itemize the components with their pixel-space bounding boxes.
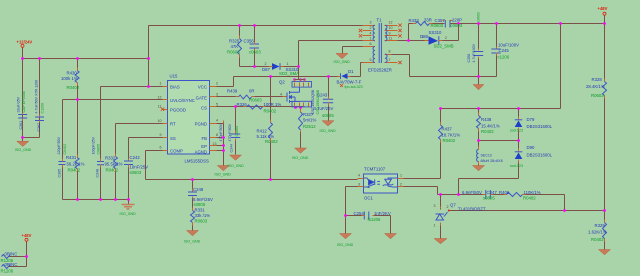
svg-text:12: 12 bbox=[389, 21, 393, 25]
svg-text:RT: RT bbox=[170, 122, 176, 127]
svg-text:1nF/2KV: 1nF/2KV bbox=[374, 211, 391, 216]
svg-text:SS: SS bbox=[170, 136, 176, 141]
svg-text:1: 1 bbox=[434, 224, 436, 228]
svg-text:fpo-sot-323: fpo-sot-323 bbox=[345, 85, 363, 89]
svg-text:10: 10 bbox=[389, 26, 393, 30]
svg-text:s0603: s0603 bbox=[130, 170, 142, 175]
svg-text:Q7: Q7 bbox=[450, 203, 456, 208]
svg-text:R1206: R1206 bbox=[1, 269, 14, 274]
svg-text:4: 4 bbox=[280, 93, 282, 97]
svg-text:R439: R439 bbox=[227, 89, 238, 94]
svg-text:sod-523: sod-523 bbox=[510, 164, 523, 168]
svg-text:R0603: R0603 bbox=[249, 98, 262, 103]
svg-text:LM5155DSS: LM5155DSS bbox=[185, 159, 209, 164]
svg-text:9: 9 bbox=[160, 133, 162, 137]
svg-text:2: 2 bbox=[445, 36, 447, 40]
svg-text:PGND: PGND bbox=[195, 121, 207, 126]
svg-text:470pF/50V: 470pF/50V bbox=[219, 123, 223, 141]
svg-text:SD2_SMB: SD2_SMB bbox=[434, 43, 454, 48]
svg-text:33R: 33R bbox=[424, 18, 432, 23]
svg-text:R0402: R0402 bbox=[443, 138, 456, 143]
svg-text:VCC: VCC bbox=[198, 84, 207, 89]
svg-text:0R: 0R bbox=[249, 89, 255, 94]
svg-text:Q2: Q2 bbox=[279, 80, 285, 85]
svg-text:18.7K/1%: 18.7K/1% bbox=[442, 133, 461, 138]
svg-text:ISO_GND: ISO_GND bbox=[215, 173, 232, 177]
svg-text:AGND: AGND bbox=[195, 150, 207, 155]
svg-text:C362: C362 bbox=[37, 123, 41, 132]
svg-text:28.4K/1%: 28.4K/1% bbox=[586, 84, 605, 89]
svg-text:2: 2 bbox=[216, 82, 218, 86]
svg-text:R0603: R0603 bbox=[195, 218, 208, 223]
svg-text:5: 5 bbox=[216, 103, 218, 107]
svg-text:4: 4 bbox=[216, 119, 218, 123]
svg-text:3: 3 bbox=[370, 21, 372, 25]
svg-text:fk1206: fk1206 bbox=[368, 217, 382, 222]
svg-text:D90: D90 bbox=[527, 145, 535, 150]
svg-text:C242: C242 bbox=[130, 155, 141, 160]
svg-text:sod-523: sod-523 bbox=[510, 129, 523, 133]
svg-text:R0402: R0402 bbox=[591, 237, 604, 242]
svg-text:3: 3 bbox=[358, 183, 360, 187]
svg-text:c0603: c0603 bbox=[249, 50, 261, 55]
svg-text:6.9nF/50V: 6.9nF/50V bbox=[462, 190, 482, 195]
svg-text:6: 6 bbox=[370, 42, 372, 46]
svg-text:C361: C361 bbox=[19, 121, 23, 130]
svg-text:C356: C356 bbox=[244, 39, 255, 44]
svg-text:ISO_GND: ISO_GND bbox=[120, 212, 137, 216]
svg-text:R0402: R0402 bbox=[68, 168, 81, 173]
svg-text:C245: C245 bbox=[499, 48, 510, 53]
svg-text:OC1: OC1 bbox=[364, 196, 373, 201]
svg-text:BIAS: BIAS bbox=[170, 84, 180, 89]
svg-text:D87: D87 bbox=[262, 67, 270, 72]
svg-text:2: 2 bbox=[265, 62, 267, 66]
svg-text:ISO_GND: ISO_GND bbox=[334, 60, 351, 64]
svg-text:C344: C344 bbox=[230, 144, 234, 153]
svg-text:9: 9 bbox=[389, 31, 391, 35]
svg-text:R433: R433 bbox=[409, 18, 420, 23]
svg-text:R327: R327 bbox=[303, 112, 314, 117]
svg-text:R0402: R0402 bbox=[264, 109, 277, 114]
svg-text:470pF/50V: 470pF/50V bbox=[228, 123, 232, 141]
svg-text:1: 1 bbox=[400, 174, 402, 178]
svg-text:C1206: C1206 bbox=[41, 103, 45, 114]
svg-text:EP: EP bbox=[201, 144, 207, 149]
svg-text:R0603: R0603 bbox=[591, 93, 604, 98]
svg-text:12: 12 bbox=[158, 95, 162, 99]
svg-text:15.4K/1%: 15.4K/1% bbox=[481, 124, 500, 129]
svg-text:TL431BIDBZT: TL431BIDBZT bbox=[458, 207, 486, 212]
svg-text:2: 2 bbox=[400, 183, 402, 187]
svg-text:C348: C348 bbox=[96, 169, 100, 178]
svg-text:11: 11 bbox=[389, 37, 393, 41]
svg-text:10nF/25V: 10nF/25V bbox=[130, 165, 149, 170]
svg-text:ISO_GND: ISO_GND bbox=[337, 243, 354, 247]
svg-text:0R/NC: 0R/NC bbox=[5, 262, 18, 267]
svg-text:33k /1%: 33k /1% bbox=[195, 213, 211, 218]
svg-text:220P: 220P bbox=[452, 18, 462, 23]
svg-text:D1: D1 bbox=[348, 69, 354, 74]
svg-text:R412: R412 bbox=[257, 129, 268, 134]
svg-text:100k 1%: 100k 1% bbox=[61, 76, 78, 81]
svg-text:1.62K/1%: 1.62K/1% bbox=[588, 230, 607, 235]
svg-text:ISO_GND: ISO_GND bbox=[320, 129, 337, 133]
svg-text:DB2S31600L: DB2S31600L bbox=[527, 124, 553, 129]
svg-text:R328: R328 bbox=[592, 77, 603, 82]
svg-text:UVLO/SYNC: UVLO/SYNC bbox=[170, 98, 195, 103]
svg-text:3: 3 bbox=[434, 204, 436, 208]
svg-text:R0402: R0402 bbox=[523, 195, 536, 200]
svg-text:s0805: s0805 bbox=[322, 113, 334, 118]
svg-text:R0603: R0603 bbox=[227, 50, 240, 55]
svg-text:R2512: R2512 bbox=[303, 124, 316, 129]
svg-text:C358: C358 bbox=[467, 54, 471, 63]
svg-text:R0402: R0402 bbox=[265, 139, 278, 144]
svg-text:68uH 28=6X8: 68uH 28=6X8 bbox=[481, 159, 503, 163]
svg-text:4.7uF/100V: 4.7uF/100V bbox=[472, 43, 476, 62]
svg-text:TCMT1107: TCMT1107 bbox=[364, 167, 386, 172]
svg-text:s0805: s0805 bbox=[483, 196, 495, 201]
svg-text:C0402: C0402 bbox=[63, 144, 67, 155]
svg-text:U15: U15 bbox=[170, 74, 178, 79]
svg-text:C243: C243 bbox=[317, 93, 328, 98]
svg-text:CAP EP035E: CAP EP035E bbox=[22, 90, 26, 112]
svg-text:2: 2 bbox=[370, 26, 372, 30]
svg-text:110K/1%: 110K/1% bbox=[524, 190, 541, 195]
svg-text:10: 10 bbox=[158, 119, 162, 123]
svg-text:SEC12: SEC12 bbox=[481, 154, 492, 158]
svg-text:5: 5 bbox=[370, 58, 372, 62]
svg-text:+48V: +48V bbox=[22, 233, 32, 238]
svg-text:+48V: +48V bbox=[598, 6, 608, 11]
svg-text:13: 13 bbox=[213, 142, 217, 146]
svg-text:1: 1 bbox=[287, 62, 289, 66]
svg-text:s0805: s0805 bbox=[194, 202, 206, 207]
svg-text:C0805: C0805 bbox=[97, 144, 101, 155]
svg-text:COMP: COMP bbox=[170, 148, 183, 153]
svg-text:33uF/35V: 33uF/35V bbox=[17, 96, 21, 112]
svg-text:3: 3 bbox=[216, 93, 218, 97]
svg-text:8: 8 bbox=[389, 50, 391, 54]
svg-text:6: 6 bbox=[160, 146, 162, 150]
svg-text:47K: 47K bbox=[231, 44, 239, 49]
svg-text:c1206: c1206 bbox=[498, 55, 510, 60]
svg-text:100pF/25V: 100pF/25V bbox=[92, 136, 96, 154]
svg-text:GATE: GATE bbox=[196, 95, 208, 100]
svg-text:ISO_GND: ISO_GND bbox=[292, 156, 309, 160]
svg-text:4: 4 bbox=[358, 174, 360, 178]
svg-text:1: 1 bbox=[160, 82, 162, 86]
svg-text:R431: R431 bbox=[66, 155, 77, 160]
svg-text:DB2S31600L: DB2S31600L bbox=[527, 153, 553, 158]
svg-text:D88: D88 bbox=[420, 34, 428, 39]
svg-text:1: 1 bbox=[370, 37, 372, 41]
svg-text:5m/1%: 5m/1% bbox=[303, 118, 317, 123]
svg-text:ISO_GND: ISO_GND bbox=[184, 240, 201, 244]
svg-text:4.7uF/50V X7R 1206: 4.7uF/50V X7R 1206 bbox=[35, 80, 39, 114]
svg-text:56.2k 1%: 56.2k 1% bbox=[67, 162, 85, 167]
svg-text:C365: C365 bbox=[58, 169, 62, 178]
svg-text:+12/24V: +12/24V bbox=[17, 40, 33, 45]
svg-text:PGOOD: PGOOD bbox=[170, 108, 186, 113]
svg-text:R325: R325 bbox=[229, 39, 240, 44]
svg-text:T1: T1 bbox=[377, 18, 383, 23]
svg-text:220pF/50V: 220pF/50V bbox=[57, 136, 61, 154]
svg-text:4: 4 bbox=[370, 31, 372, 35]
svg-text:R437: R437 bbox=[442, 127, 453, 132]
svg-text:R438: R438 bbox=[481, 117, 492, 122]
svg-text:7: 7 bbox=[389, 58, 391, 62]
svg-text:95.5k/1%: 95.5k/1% bbox=[105, 162, 123, 167]
svg-text:ISO_GND: ISO_GND bbox=[15, 148, 32, 152]
svg-text:c0603: c0603 bbox=[451, 23, 463, 28]
svg-text:R0402: R0402 bbox=[106, 168, 119, 173]
svg-text:4.7uF/25V: 4.7uF/25V bbox=[314, 106, 334, 111]
svg-text:R0402: R0402 bbox=[67, 85, 80, 90]
svg-text:R332: R332 bbox=[105, 156, 116, 161]
svg-text:SS310: SS310 bbox=[429, 30, 443, 35]
svg-text:D79: D79 bbox=[527, 117, 535, 122]
svg-text:2: 2 bbox=[447, 205, 449, 209]
svg-text:R331: R331 bbox=[195, 208, 206, 213]
svg-text:8: 8 bbox=[216, 133, 218, 137]
svg-text:c0603: c0603 bbox=[477, 12, 481, 22]
svg-text:C248: C248 bbox=[193, 187, 204, 192]
svg-text:R0402: R0402 bbox=[481, 129, 494, 134]
svg-text:R329: R329 bbox=[595, 223, 606, 228]
svg-text:SD2_SMA: SD2_SMA bbox=[279, 71, 299, 76]
svg-text:R430: R430 bbox=[67, 71, 78, 76]
svg-text:FB: FB bbox=[202, 136, 208, 141]
svg-text:CS: CS bbox=[201, 105, 207, 110]
svg-text:0R/NC: 0R/NC bbox=[5, 252, 18, 257]
svg-text:100R 1%: 100R 1% bbox=[264, 102, 282, 107]
svg-text:10uF/100V: 10uF/100V bbox=[498, 43, 519, 48]
svg-text:ISO_GND: ISO_GND bbox=[228, 164, 245, 168]
svg-text:EFD2528ZR: EFD2528ZR bbox=[368, 67, 392, 72]
